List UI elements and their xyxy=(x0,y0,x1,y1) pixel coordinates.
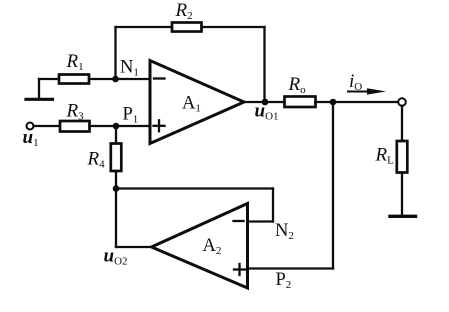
terminal (output) xyxy=(398,98,406,106)
wire xyxy=(248,267,334,269)
wire xyxy=(116,246,152,248)
wire xyxy=(116,26,173,28)
wire xyxy=(272,189,274,222)
wire xyxy=(114,27,116,79)
wire xyxy=(115,189,117,248)
op-amp A1 xyxy=(150,61,244,144)
resistor R1 xyxy=(59,51,89,84)
node uO1 xyxy=(255,99,279,123)
wire xyxy=(34,125,61,127)
wire xyxy=(115,126,117,144)
op-amp A2 xyxy=(152,204,248,289)
wire xyxy=(332,102,334,269)
ground (left, for R1) xyxy=(26,79,53,99)
node (output junction) xyxy=(330,99,337,106)
node N1 xyxy=(112,58,139,83)
resistor R3 xyxy=(60,101,90,132)
wire xyxy=(263,27,265,102)
resistor R4 xyxy=(87,144,122,172)
wire xyxy=(248,220,274,222)
wire xyxy=(89,78,150,80)
wire xyxy=(401,106,403,141)
resistor RL xyxy=(375,141,408,173)
wire xyxy=(90,125,151,127)
resistor R2 xyxy=(172,0,202,32)
current iO arrow xyxy=(348,71,386,95)
wire xyxy=(244,101,285,103)
resistor Ro xyxy=(285,74,316,107)
node P1 xyxy=(113,105,139,130)
wire xyxy=(115,171,117,189)
wire xyxy=(116,187,273,189)
wire xyxy=(39,78,59,80)
ground (right, for RL) xyxy=(390,215,416,218)
wire xyxy=(316,101,399,103)
node (junction of R4, uO2 line and N2 feedback) xyxy=(113,185,120,192)
wire xyxy=(202,26,265,28)
wire xyxy=(401,173,403,216)
terminal u1 xyxy=(23,123,39,150)
